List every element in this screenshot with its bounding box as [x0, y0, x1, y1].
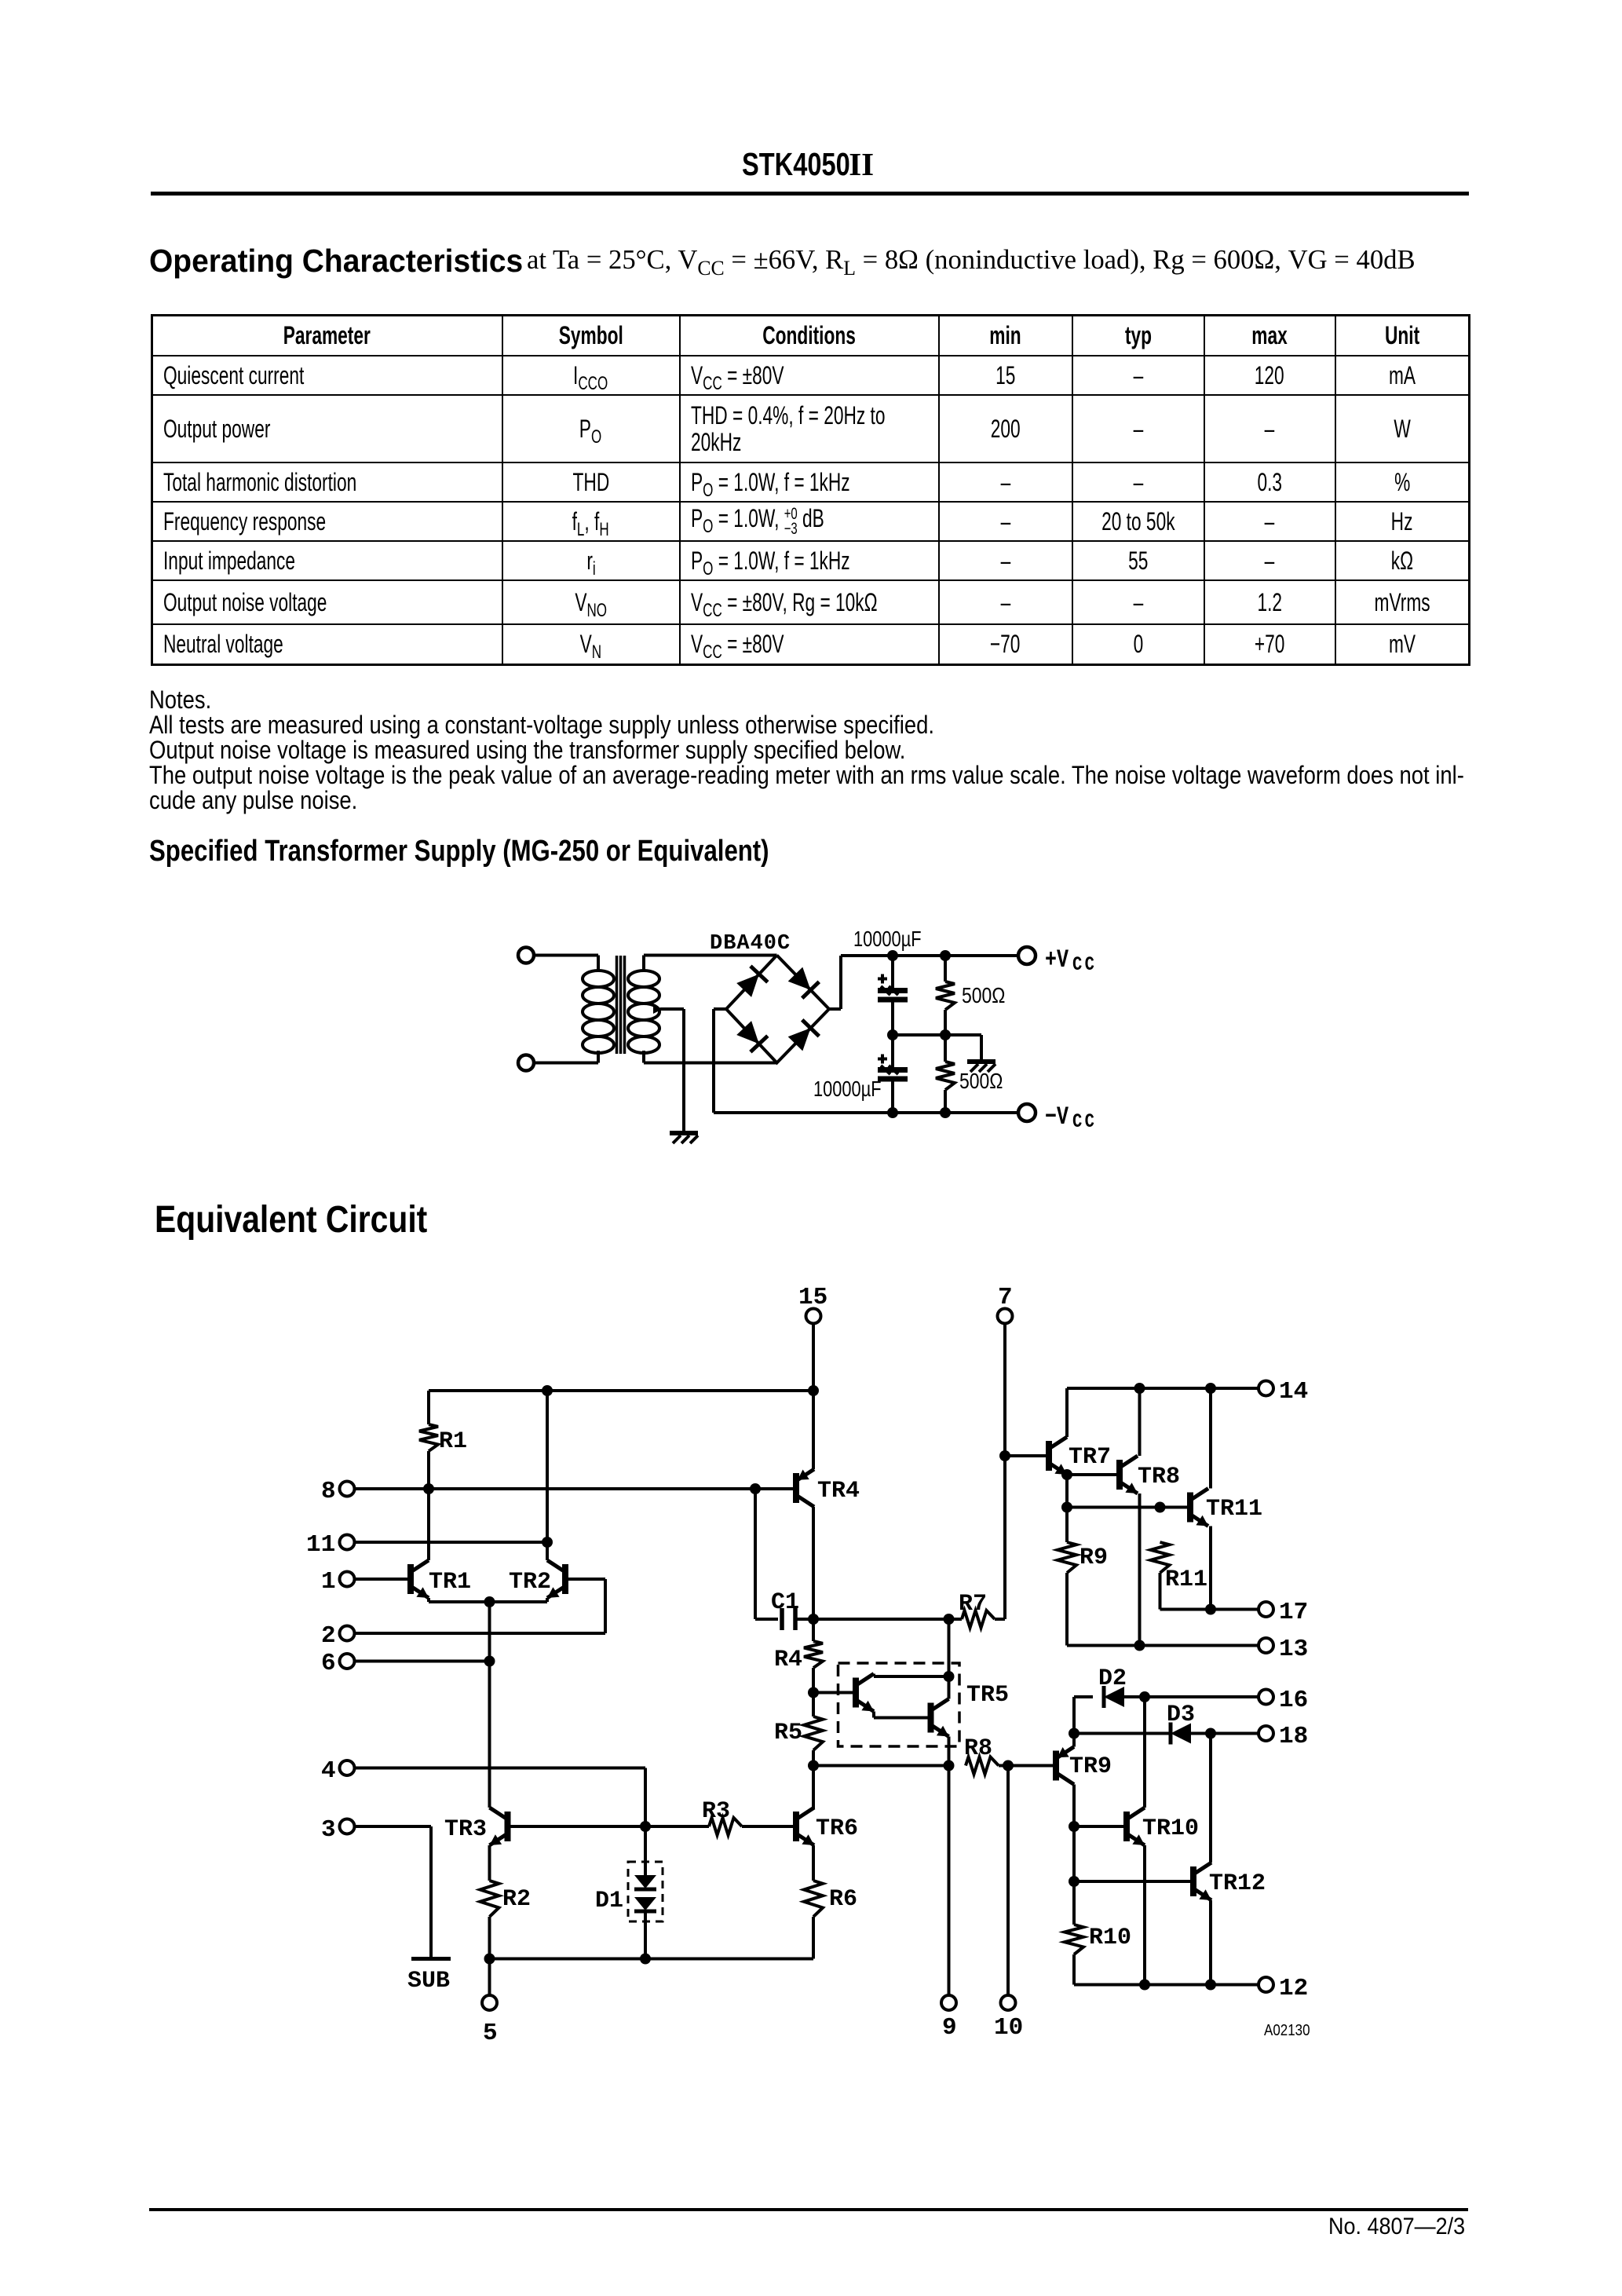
- svg-text:C1: C1: [771, 1589, 799, 1616]
- top rule: [151, 192, 1469, 196]
- wire TR10 base: [1074, 1825, 1123, 1828]
- spec table: [151, 314, 1470, 666]
- resistor R4: [774, 1641, 823, 1673]
- wire TR7 emitter to TR8 base: [1067, 1473, 1116, 1476]
- wire TR12 base: [1074, 1880, 1190, 1883]
- wire TR6 collector up: [812, 1808, 815, 1809]
- transistor TR8: [1120, 1456, 1180, 1493]
- wire upper rail to pin14: [1067, 1387, 1259, 1390]
- svg-text:R8: R8: [964, 1735, 992, 1762]
- node R11 top: [1155, 1502, 1166, 1513]
- wire D3 to pin18: [1191, 1732, 1259, 1735]
- node pin7/TR7 base: [999, 1450, 1010, 1461]
- terminal +Vcc: [1018, 947, 1036, 964]
- resistor R7: [959, 1591, 995, 1628]
- wire pin11: [355, 1541, 547, 1544]
- node top rail / pin15: [808, 1385, 819, 1396]
- wire R5 bottom: [812, 1750, 815, 1809]
- wire R7 left: [813, 1618, 962, 1621]
- node TR7 emitter: [1061, 1469, 1072, 1480]
- wire mid rail: [893, 1033, 981, 1036]
- bridge diode T to R: [788, 967, 820, 999]
- pin 2 terminal: [321, 1622, 355, 1650]
- bridge diode L to B: [736, 1021, 768, 1052]
- wire pin10 vertical: [1006, 1766, 1010, 1996]
- wire -Vcc rail: [714, 1111, 1017, 1114]
- svg-text:TR3: TR3: [444, 1816, 487, 1843]
- dashed box D1: [628, 1862, 663, 1921]
- diode D1a: [634, 1875, 656, 1889]
- transistor TR4: [796, 1469, 860, 1507]
- svg-text:CC: CC: [1072, 1110, 1097, 1132]
- node cap2 bottom: [887, 1107, 898, 1118]
- svg-text:500Ω: 500Ω: [959, 1069, 1003, 1094]
- diode D3: [1167, 1702, 1195, 1745]
- node TR10 collector column: [1139, 1691, 1150, 1702]
- wire TR10 emitter down: [1143, 1845, 1146, 1985]
- node top rail / TR2 column: [542, 1385, 553, 1396]
- wire TR5a emitter to TR5b base: [874, 1712, 928, 1718]
- wire R7 column upper: [948, 1619, 951, 1699]
- svg-text:R7: R7: [959, 1591, 987, 1618]
- SUB substrate symbol: [407, 1959, 451, 1995]
- wire D2 line left: [1074, 1695, 1093, 1698]
- wire R8 to TR9 base: [999, 1764, 1056, 1768]
- resistor R5: [774, 1717, 823, 1750]
- wire TR7 base: [1005, 1454, 1046, 1457]
- transistor TR12: [1193, 1863, 1266, 1900]
- wire D3 line left: [1074, 1732, 1171, 1735]
- transistor TR6: [796, 1808, 858, 1845]
- center tap arrow: [653, 1004, 663, 1014]
- pin 14 terminal: [1259, 1378, 1308, 1406]
- wire D1 top: [644, 1826, 647, 1875]
- svg-text:18: 18: [1279, 1723, 1308, 1750]
- wire TR11 emitter down: [1209, 1526, 1212, 1610]
- resistor 500ohm bottom: [936, 1035, 955, 1113]
- svg-text:−V: −V: [1045, 1102, 1069, 1132]
- node TR11 emitter / pin17: [1205, 1604, 1216, 1615]
- svg-text:TR5: TR5: [966, 1682, 1009, 1709]
- wire TR2 base loop to pin2: [568, 1579, 605, 1633]
- svg-text:TR9: TR9: [1069, 1753, 1112, 1780]
- node D3 branch: [1069, 1728, 1080, 1739]
- svg-text:1: 1: [321, 1568, 336, 1596]
- wire D1 bottom: [644, 1911, 647, 1959]
- resistor R6: [804, 1881, 857, 1917]
- svg-text:R11: R11: [1165, 1567, 1207, 1593]
- resistor R2: [480, 1881, 532, 1917]
- wire TR9 collector down: [1072, 1785, 1076, 1925]
- svg-text:R10: R10: [1089, 1925, 1131, 1951]
- transistor TR5b: [931, 1699, 949, 1737]
- node pin8/C1 branch: [750, 1483, 761, 1494]
- wire TR9 emitter up: [1072, 1697, 1076, 1747]
- wire top rail: [429, 1389, 813, 1392]
- wire TR11 base: [1067, 1506, 1187, 1509]
- svg-text:SUB: SUB: [407, 1968, 450, 1994]
- svg-text:TR12: TR12: [1209, 1870, 1266, 1897]
- svg-text:10000µF: 10000µF: [813, 1077, 882, 1101]
- pin 12 terminal: [1259, 1975, 1308, 2002]
- node TR12 emitter rail: [1205, 1980, 1216, 1991]
- footer text: [1328, 2214, 1465, 2240]
- node TR8 collector rail: [1134, 1383, 1145, 1394]
- transistor TR11: [1190, 1489, 1262, 1526]
- label A02130: [1264, 2021, 1310, 2039]
- pin 7 terminal: [998, 1284, 1013, 1324]
- svg-text:6: 6: [321, 1650, 336, 1677]
- svg-text:TR2: TR2: [509, 1569, 551, 1596]
- wire R7 right: [995, 1618, 1005, 1621]
- svg-text:3: 3: [321, 1816, 336, 1844]
- node R7 left: [944, 1614, 955, 1625]
- wire tail column to TR3: [488, 1602, 491, 1808]
- wire pin1 to TR1 base: [355, 1578, 407, 1581]
- resistor R8: [964, 1735, 999, 1775]
- wire R4 to R5: [812, 1668, 815, 1717]
- wire R1 bottom: [427, 1451, 430, 1489]
- transistor TR2: [509, 1560, 565, 1598]
- wire center tap to ground: [660, 1009, 684, 1131]
- pin 17 terminal: [1259, 1599, 1308, 1626]
- node pin11/TR2 column: [542, 1537, 553, 1548]
- node res1 bottom: [940, 1029, 951, 1040]
- svg-text:10: 10: [994, 2014, 1023, 2042]
- wire TR3 base: [510, 1825, 645, 1828]
- wire pin17: [1211, 1608, 1259, 1611]
- svg-text:D3: D3: [1167, 1702, 1195, 1728]
- transformer T1 primary winding: [583, 971, 614, 1053]
- resistor 500ohm top: [936, 956, 955, 1035]
- wire R5 link to pin9 column: [813, 1764, 949, 1768]
- wire TR12 emitter down: [1209, 1900, 1212, 1985]
- transistor TR3: [444, 1808, 508, 1845]
- pin 16 terminal: [1259, 1687, 1308, 1714]
- svg-text:17: 17: [1279, 1599, 1308, 1626]
- svg-text:+V: +V: [1045, 945, 1069, 974]
- node res1 top: [940, 950, 951, 961]
- wire TR10 collector up: [1143, 1697, 1146, 1808]
- wire TR5b emitter down to R8: [948, 1737, 951, 1996]
- label DBA40C: [710, 932, 791, 956]
- wire TR3 emitter down: [488, 1845, 491, 1881]
- terminal IN top: [518, 948, 534, 963]
- wire pin4: [355, 1768, 645, 1827]
- svg-text:8: 8: [321, 1478, 336, 1505]
- resistor R1: [419, 1424, 467, 1455]
- svg-text:2: 2: [321, 1622, 336, 1650]
- label 500ohm bottom: [959, 1069, 1003, 1094]
- svg-text:15: 15: [798, 1284, 827, 1311]
- wire R3 left: [645, 1825, 709, 1828]
- transistor TR7: [1049, 1437, 1111, 1475]
- capacitor C1: [771, 1589, 813, 1630]
- bridge rectifier DBA40C diamond: [726, 956, 829, 1063]
- wire bridge minus output: [714, 1009, 726, 1113]
- wire secondary top to bridge: [644, 956, 777, 972]
- wire R3 to TR6 base: [742, 1825, 793, 1828]
- svg-text:TR6: TR6: [816, 1815, 858, 1842]
- node TR5 base branch: [808, 1687, 819, 1698]
- node res2 bottom: [940, 1107, 951, 1118]
- svg-text:TR10: TR10: [1142, 1815, 1199, 1842]
- label +Vcc: [1045, 945, 1097, 975]
- node TR11 base branch: [1061, 1502, 1072, 1513]
- node TR10 emitter rail: [1139, 1980, 1150, 1991]
- bridge diode L to T: [736, 966, 768, 997]
- svg-text:DBA40C: DBA40C: [710, 932, 791, 956]
- wire R11 bottom link: [1160, 1573, 1211, 1610]
- wire TR11 collector up: [1209, 1388, 1212, 1489]
- resistor R10: [1065, 1925, 1131, 1954]
- resistor R9: [1058, 1542, 1108, 1573]
- transistor TR9: [1056, 1747, 1112, 1785]
- node TR5a collector: [944, 1671, 955, 1682]
- wire R6 bottom: [812, 1917, 815, 1959]
- svg-text:10000µF: 10000µF: [853, 927, 922, 951]
- svg-text:R9: R9: [1080, 1545, 1108, 1571]
- node C1/R7: [808, 1614, 819, 1625]
- label 10000uF top: [853, 927, 922, 951]
- wire pin6: [355, 1660, 490, 1663]
- footer rule: [149, 2208, 1468, 2211]
- wire pin2: [355, 1632, 605, 1635]
- transformer T1 secondary winding: [628, 971, 659, 1053]
- wire TR4 collector down: [812, 1507, 815, 1619]
- svg-text:R6: R6: [829, 1886, 857, 1913]
- node pin6/tail column: [484, 1656, 495, 1667]
- wire R9 column: [1065, 1475, 1069, 1542]
- node TR11 collector rail: [1205, 1383, 1216, 1394]
- node TR10 base branch: [1069, 1821, 1080, 1832]
- wire primary top lead: [535, 956, 598, 972]
- svg-text:D1: D1: [595, 1888, 623, 1914]
- svg-text:500Ω: 500Ω: [962, 984, 1005, 1008]
- wire mid rail to ground: [980, 1035, 983, 1059]
- svg-text:14: 14: [1279, 1378, 1308, 1406]
- notes: [149, 687, 1464, 813]
- pin 6 terminal: [321, 1650, 355, 1677]
- capacitor C+ top 10000uF: [878, 956, 908, 1035]
- bridge diode B to R: [788, 1020, 820, 1051]
- Specified Transformer Supply heading: [149, 835, 769, 868]
- title: [742, 145, 874, 183]
- pin 4 terminal: [321, 1757, 355, 1785]
- pin 9 terminal: [941, 1995, 957, 2042]
- svg-text:4: 4: [321, 1757, 336, 1785]
- pin 8 terminal: [321, 1478, 355, 1505]
- svg-text:R3: R3: [702, 1798, 730, 1825]
- wire R2 bottom: [488, 1917, 491, 1959]
- wire secondary bottom to bridge: [644, 1051, 777, 1063]
- label -Vcc: [1045, 1102, 1097, 1132]
- wire TR1 emitter down: [429, 1598, 547, 1602]
- svg-text:CC: CC: [1072, 953, 1097, 975]
- wire R10 bottom rail: [1074, 1954, 1259, 1985]
- pin 15 terminal: [798, 1284, 827, 1324]
- wire D2 to pin16: [1124, 1695, 1259, 1698]
- wire TR7 collector up: [1065, 1388, 1069, 1437]
- wire +Vcc rail: [841, 954, 1018, 957]
- node TR3 base / D1: [640, 1821, 651, 1832]
- node rail/pin5: [484, 1954, 495, 1965]
- node R8 right / pin10: [1003, 1760, 1014, 1771]
- node TR8 emitter / pin13: [1134, 1640, 1145, 1651]
- wire TR1 collector column: [427, 1489, 430, 1560]
- pin 5 terminal: [482, 1959, 498, 2048]
- pin 11 terminal: [306, 1531, 355, 1559]
- transformer T1 core: [617, 956, 625, 1054]
- svg-text:TR7: TR7: [1069, 1444, 1111, 1471]
- wire TR2 collector column: [546, 1391, 549, 1560]
- wire TR5 base lead: [813, 1691, 856, 1695]
- svg-text:R4: R4: [774, 1647, 802, 1673]
- transistor TR10: [1127, 1808, 1199, 1845]
- wire R1 top: [427, 1391, 430, 1424]
- resistor R3: [702, 1798, 742, 1835]
- svg-text:7: 7: [998, 1284, 1013, 1311]
- svg-text:9: 9: [942, 2014, 957, 2042]
- wire R4 top: [812, 1619, 815, 1641]
- node cap1 top: [887, 950, 898, 961]
- node emitter junction: [484, 1596, 495, 1607]
- terminal IN bottom: [518, 1055, 534, 1071]
- wire TR8 emitter down: [1138, 1493, 1142, 1646]
- svg-text:12: 12: [1279, 1975, 1308, 2002]
- node cap1 bottom: [887, 1029, 898, 1040]
- wire bottom rail left: [490, 1958, 814, 1961]
- wire C1 left branch: [755, 1489, 778, 1619]
- node R5/R8 link: [808, 1760, 819, 1771]
- svg-text:13: 13: [1279, 1636, 1308, 1663]
- svg-text:A02130: A02130: [1264, 2021, 1310, 2039]
- node pin8/R1: [423, 1483, 434, 1494]
- pin 1 terminal: [321, 1568, 355, 1596]
- wire R9 bottom to pin13: [1067, 1573, 1259, 1646]
- wire TR6 emitter down: [812, 1845, 815, 1881]
- node TR12 collector column: [1205, 1728, 1216, 1739]
- transistor TR1: [411, 1560, 471, 1598]
- pin 3 terminal: [321, 1816, 355, 1844]
- Equivalent Circuit heading: [155, 1198, 427, 1241]
- diode D2: [1098, 1665, 1127, 1708]
- pin 10 terminal: [994, 1995, 1023, 2042]
- node R8 left: [944, 1760, 955, 1771]
- wire primary bottom lead: [535, 1051, 598, 1063]
- wire TR5a collector: [874, 1674, 949, 1677]
- svg-text:TR11: TR11: [1206, 1496, 1262, 1523]
- svg-text:TR1: TR1: [429, 1569, 471, 1596]
- node TR12 base branch: [1069, 1876, 1080, 1887]
- resistor R11: [1151, 1542, 1208, 1593]
- svg-text:D2: D2: [1098, 1665, 1127, 1692]
- svg-text:R5: R5: [774, 1720, 802, 1746]
- wire pin7 vertical: [1003, 1324, 1006, 1619]
- wire TR8 collector up: [1138, 1388, 1142, 1456]
- svg-text:R2: R2: [502, 1886, 531, 1913]
- terminal -Vcc: [1018, 1104, 1036, 1121]
- wire TR12 collector up: [1209, 1734, 1212, 1863]
- wire pin15 vertical: [812, 1324, 815, 1469]
- wire pin3 to SUB: [355, 1826, 431, 1959]
- svg-text:5: 5: [483, 2020, 498, 2047]
- transistor TR5a: [856, 1674, 874, 1712]
- label 500ohm top: [962, 984, 1005, 1008]
- ground (mid rail): [967, 1062, 995, 1072]
- wire pin8 to TR4 base: [355, 1487, 793, 1490]
- label 10000uF bottom: [813, 1077, 882, 1101]
- wire bridge plus output: [829, 956, 841, 1009]
- diode D1b: [595, 1888, 656, 1914]
- svg-text:R1: R1: [439, 1428, 467, 1455]
- ground (center tap): [670, 1133, 698, 1143]
- svg-text:TR8: TR8: [1138, 1464, 1180, 1490]
- pin 18 terminal: [1259, 1723, 1308, 1750]
- Operating Characteristics heading: [149, 243, 523, 280]
- dashed box TR5: [838, 1663, 1010, 1746]
- svg-text:11: 11: [306, 1531, 335, 1559]
- node rail/D1: [640, 1954, 651, 1965]
- pin 13 terminal: [1259, 1636, 1308, 1663]
- svg-text:16: 16: [1279, 1687, 1308, 1714]
- capacitor C+ bottom 10000uF: [878, 1035, 908, 1113]
- svg-text:TR4: TR4: [817, 1478, 860, 1504]
